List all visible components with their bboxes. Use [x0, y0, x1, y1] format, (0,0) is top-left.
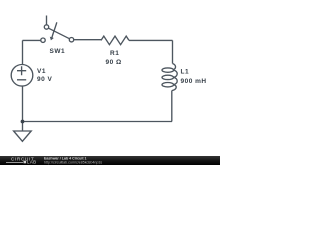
voltage source V1 — [11, 65, 33, 87]
ground — [14, 131, 32, 141]
node junction — [21, 120, 25, 124]
footer attribution bar — [0, 156, 220, 165]
wire V1 bottom to junction — [22, 86, 24, 122]
wire right branch to inductor — [172, 40, 174, 63]
wire inductor to bottom-right corner — [171, 91, 173, 122]
wire switch to resistor — [74, 39, 101, 41]
inductor L1 — [162, 64, 177, 91]
svg-text:http://circuitlab.com/c/e85kds: http://circuitlab.com/c/e85kdsb4np3s — [44, 161, 102, 165]
switch SW1 — [41, 16, 74, 43]
CircuitLab logo — [6, 156, 37, 164]
resistor R1 — [101, 36, 129, 45]
wire bottom horizontal — [23, 121, 173, 123]
wire left branch down to V1 — [22, 40, 24, 64]
attribution text — [44, 157, 102, 165]
wire resistor to top-right corner — [129, 39, 173, 41]
wire junction to ground — [22, 122, 24, 132]
svg-text:LAB: LAB — [27, 160, 37, 165]
wire top-left segment — [23, 39, 41, 41]
